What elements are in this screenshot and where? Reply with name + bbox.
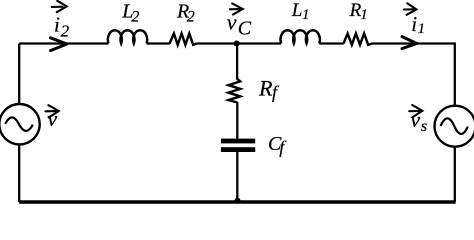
svg-text:L: L: [291, 0, 303, 21]
svg-text:i: i: [54, 12, 60, 36]
svg-text:v: v: [410, 107, 420, 132]
svg-text:i: i: [411, 12, 417, 36]
svg-text:2: 2: [187, 9, 195, 26]
svg-text:v: v: [47, 106, 57, 131]
svg-text:2: 2: [131, 9, 139, 26]
svg-text:v: v: [227, 10, 237, 35]
svg-text:1: 1: [360, 7, 368, 23]
svg-text:2: 2: [61, 22, 70, 41]
svg-text:1: 1: [418, 21, 426, 37]
svg-text:s: s: [421, 118, 427, 135]
svg-text:1: 1: [302, 7, 310, 23]
svg-text:C: C: [238, 18, 252, 40]
svg-text:R: R: [258, 76, 273, 101]
